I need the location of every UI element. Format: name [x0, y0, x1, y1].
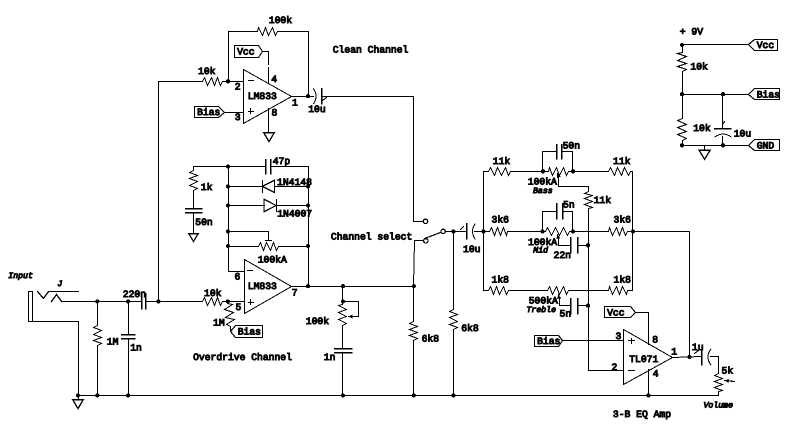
- diode D2 1N4007: [264, 199, 276, 211]
- wire supply top to Vcc flag: [683, 44, 749, 46]
- svg-text:5k: 5k: [722, 366, 734, 377]
- node clean branch junction: [156, 299, 160, 303]
- svg-text:100kA: 100kA: [528, 177, 557, 188]
- svg-text:5n: 5n: [563, 199, 575, 210]
- wire 1M to Bias flag: [230, 327, 232, 332]
- capacitor 10u bias decoupling (electrolytic): [722, 95, 724, 129]
- node pole junction: [451, 229, 455, 233]
- node treble 5n junction: [586, 304, 590, 308]
- capacitor 1n input to ground: [128, 302, 130, 335]
- potentiometer 100kA Mid: [546, 228, 570, 236]
- node supply ground right: [721, 143, 725, 147]
- node 1n ground: [126, 393, 130, 397]
- node 1M ground: [95, 393, 99, 397]
- node mid pot left: [540, 229, 544, 233]
- potentiometer 100kA overdrive gain: [229, 246, 259, 248]
- node 1N4007 left: [226, 203, 230, 207]
- node pin5 junction: [226, 299, 230, 303]
- svg-text:2: 2: [612, 362, 618, 373]
- node bass pot right: [571, 169, 575, 173]
- wire Vcc to pin8: [636, 313, 649, 345]
- svg-text:5: 5: [236, 302, 242, 313]
- node output feedback junction: [687, 355, 691, 359]
- op-amp U1B LM833 overdrive: [245, 260, 292, 314]
- wire feedback right down to output node: [278, 32, 309, 97]
- wire TL071 output: [673, 357, 702, 358]
- svg-text:10k: 10k: [690, 62, 708, 73]
- capacitor 47p: [265, 160, 267, 174]
- switch SW1 clean throw contact: [423, 219, 427, 223]
- svg-text:1: 1: [292, 97, 298, 108]
- node feedback top-left: [226, 165, 230, 169]
- wire bass wiper to 11k vert: [558, 174, 559, 178]
- svg-text:6: 6: [235, 271, 241, 282]
- svg-text:50n: 50n: [195, 217, 212, 228]
- svg-text:10k: 10k: [198, 66, 216, 77]
- node overdrive output: [306, 284, 310, 288]
- node 1n junction: [126, 299, 130, 303]
- wire feedback right bus: [308, 167, 310, 287]
- resistor 10k supply lower: [682, 95, 684, 119]
- wire 1N4007 row: [229, 205, 265, 207]
- node 6k8 ground A: [412, 393, 416, 397]
- node wiper row left: [226, 229, 230, 233]
- node supply ground left: [680, 143, 684, 147]
- potentiometer 100kA Bass: [549, 168, 569, 176]
- wire to bass pot: [511, 171, 549, 173]
- svg-text:Bass: Bass: [533, 187, 553, 196]
- capacitor 50n bass bypass: [543, 152, 557, 172]
- svg-text:8: 8: [652, 335, 658, 346]
- node EQ mid-row left: [481, 229, 485, 233]
- node switch drop: [412, 284, 416, 288]
- wire 1N4148 row: [229, 186, 263, 188]
- wire 10k to pin5: [223, 301, 245, 303]
- wire mid wiper to 22n: [558, 235, 559, 239]
- svg-text:10u: 10u: [308, 104, 325, 115]
- capacitor 22n mid wiper: [570, 238, 572, 253]
- wire input signal row: [62, 301, 142, 303]
- wire mid pot to 3k6 right: [570, 231, 609, 233]
- wire Bias to pin3: [225, 112, 243, 114]
- svg-text:LM833: LM833: [248, 281, 277, 292]
- svg-text:100k: 100k: [269, 15, 292, 26]
- wire 10k to pin2: [223, 81, 243, 83]
- svg-text:500kA: 500kA: [529, 295, 558, 306]
- capacitor 1n overdrive output: [342, 326, 344, 349]
- svg-text:8: 8: [272, 107, 278, 118]
- svg-text:1k: 1k: [201, 182, 213, 193]
- wire to treble pot: [509, 290, 548, 292]
- resistor 10k clean input: [203, 78, 223, 86]
- svg-text:3: 3: [616, 331, 622, 342]
- svg-text:1n: 1n: [324, 352, 336, 363]
- resistor 10k overdrive input: [203, 298, 223, 306]
- svg-text:22n: 22n: [554, 250, 571, 261]
- wire EQ right bus: [632, 172, 634, 291]
- wire bass pot to 11k right: [569, 171, 609, 173]
- svg-text:Vcc: Vcc: [757, 40, 775, 51]
- node 22n junction: [586, 243, 590, 247]
- wire feedback loop left+top: [229, 32, 258, 82]
- svg-text:11k: 11k: [594, 195, 612, 206]
- flag Bias clean: [195, 107, 225, 118]
- node 100k pot branch: [341, 284, 345, 288]
- capacitor 10u clean output (electrolytic): [314, 89, 317, 104]
- wire pot wiper tap: [229, 232, 269, 241]
- svg-text:Overdrive Channel: Overdrive Channel: [193, 352, 292, 363]
- node EQ mid-row right: [631, 229, 635, 233]
- flag Vcc clean: [235, 46, 263, 58]
- svg-text:1N4007: 1N4007: [277, 209, 312, 220]
- svg-text:1k8: 1k8: [614, 274, 632, 285]
- flag Vcc supply: [749, 40, 778, 51]
- pin4 stub to ground bus: [648, 370, 650, 396]
- node supply top: [680, 43, 684, 47]
- svg-text:1N4148: 1N4148: [277, 177, 312, 188]
- svg-text:TL071: TL071: [629, 354, 658, 365]
- svg-text:10k: 10k: [204, 288, 222, 299]
- resistor 1M overdrive bias (diagonal): [225, 304, 235, 327]
- resistor 1k8 treble left: [484, 290, 489, 292]
- node 1N4148 right: [306, 184, 310, 188]
- capacitor 1u output (electrolytic): [695, 351, 699, 354]
- wire ground bus: [79, 395, 719, 397]
- resistor 6k8 overdrive drop to ground: [413, 287, 415, 322]
- svg-text:Clean Channel: Clean Channel: [333, 45, 409, 56]
- svg-text:1: 1: [671, 347, 677, 358]
- wire overdrive output row: [291, 286, 414, 288]
- wire wiper bus down to TL071 pin2: [589, 209, 624, 371]
- svg-text:1M: 1M: [107, 336, 119, 347]
- wire pin6 from feedback bus: [229, 271, 245, 273]
- wire 1n to ground bus: [342, 353, 344, 396]
- svg-text:6k8: 6k8: [461, 323, 479, 334]
- wire cap to volume pot: [711, 357, 719, 374]
- svg-text:Treble: Treble: [527, 306, 557, 315]
- svg-text:3: 3: [235, 112, 241, 123]
- node 1N4148 left: [226, 184, 230, 188]
- node bass pot left: [541, 169, 545, 173]
- flag GND supply: [749, 140, 780, 151]
- wire clean-channel input vertical from signal node up to 10k: [159, 82, 203, 302]
- resistor 1k8 treble right: [609, 287, 628, 295]
- capacitor 5n mid bypass: [543, 212, 557, 232]
- capacitor 5n treble wiper: [570, 299, 572, 314]
- svg-text:2: 2: [235, 81, 241, 92]
- switch SW1 lever: [425, 233, 441, 239]
- ground clip branch: [193, 213, 195, 234]
- resistor 11k bass right: [609, 168, 631, 176]
- svg-text:Vcc: Vcc: [237, 47, 255, 58]
- svg-text:J: J: [57, 280, 62, 289]
- svg-text:Volume: Volume: [704, 402, 734, 411]
- wire clean output to channel select: [322, 97, 424, 222]
- svg-text:7: 7: [292, 287, 298, 298]
- svg-text:3-B EQ Amp: 3-B EQ Amp: [613, 409, 671, 420]
- svg-text:3k6: 3k6: [492, 215, 510, 226]
- node 1N4007 right: [306, 203, 310, 207]
- switch SW1 overdrive throw contact: [424, 239, 428, 243]
- svg-text:100kA: 100kA: [258, 255, 287, 266]
- node pin4 ground: [646, 393, 650, 397]
- resistor 1k clip branch: [193, 167, 195, 171]
- wire clean output to cap: [291, 96, 314, 98]
- wire pole to cap: [446, 231, 467, 233]
- wire 47p to right bus: [271, 166, 309, 168]
- wire treble wiper to 5n: [559, 295, 560, 299]
- svg-text:1u: 1u: [692, 342, 704, 353]
- wire cap to EQ input bus: [475, 231, 484, 233]
- svg-text:100k: 100k: [306, 316, 329, 327]
- node input ground: [76, 393, 80, 397]
- wire feedback left bus: [228, 167, 230, 272]
- flag Bias supply: [749, 89, 780, 100]
- node pot row left: [226, 244, 230, 248]
- resistor 3k6 mid left: [484, 231, 490, 233]
- wire 100k wiper loop: [343, 302, 359, 317]
- svg-text:Bias: Bias: [757, 89, 780, 100]
- svg-text:Bias: Bias: [197, 107, 220, 118]
- wire EQ left bus: [483, 172, 485, 291]
- connector J input jack: [29, 292, 33, 322]
- node pot row right: [306, 244, 310, 248]
- potentiometer 100k output level: [342, 287, 344, 305]
- svg-text:LM833: LM833: [248, 91, 277, 102]
- node bias divider: [680, 92, 684, 96]
- svg-text:5n: 5n: [560, 309, 572, 320]
- flag Vcc TL071: [605, 307, 636, 318]
- flag Bias TL071: [535, 336, 563, 347]
- potentiometer 5k Volume: [715, 374, 723, 392]
- wire overdrive throw to output row: [414, 241, 424, 287]
- resistor 6k8 pole to ground: [453, 232, 455, 310]
- capacitor 50n clip branch: [193, 191, 195, 209]
- resistor 100k clean feedback: [258, 28, 278, 36]
- node 6k8 ground B: [451, 393, 455, 397]
- wire treble pot to 1k8 right: [569, 290, 609, 292]
- resistor 3k6 mid right: [609, 228, 628, 236]
- wire Vcc to pin4: [263, 52, 269, 65]
- svg-text:10u: 10u: [463, 244, 480, 255]
- resistor 11k bass left: [484, 171, 489, 173]
- potentiometer 500kA Treble: [548, 287, 569, 295]
- capacitor 220n input coupling: [141, 294, 143, 309]
- svg-text:6k8: 6k8: [422, 334, 440, 345]
- capacitor 10u channel select (electrolytic): [466, 224, 468, 239]
- wire supply ground row to GND flag: [683, 145, 749, 147]
- svg-text:10u: 10u: [734, 128, 751, 139]
- resistor 10k supply upper: [682, 45, 684, 53]
- ground clean op-amp pin8: [264, 133, 275, 142]
- svg-text:Vcc: Vcc: [607, 308, 625, 319]
- svg-text:Channel select: Channel select: [331, 232, 412, 243]
- resistor 11k bass wiper: [585, 192, 593, 209]
- node pin2 junction: [226, 79, 230, 83]
- svg-text:11k: 11k: [493, 156, 511, 167]
- svg-text:3k6: 3k6: [614, 215, 632, 226]
- switch SW1 pole contact: [441, 229, 445, 233]
- wire jack tip contact: [52, 295, 62, 302]
- wire Bias to pin3: [563, 340, 624, 342]
- svg-text:50n: 50n: [563, 141, 580, 152]
- wire 22n to wiper bus: [578, 245, 589, 247]
- flag Bias overdrive: [231, 326, 263, 338]
- svg-text:+ 9V: + 9V: [680, 26, 703, 37]
- node mid pot right: [571, 229, 575, 233]
- svg-text:Mid: Mid: [533, 247, 548, 256]
- pin 8 stub: [268, 109, 270, 133]
- resistor 1M input to ground: [97, 302, 99, 326]
- op-amp U1A LM833 clean: [244, 70, 292, 124]
- node overdrive 1n ground: [341, 393, 345, 397]
- wire 220n to overdrive 10k: [146, 301, 203, 303]
- svg-text:1k8: 1k8: [492, 274, 510, 285]
- wire to mid pot: [508, 231, 546, 233]
- wire 5n to wiper bus: [578, 305, 589, 307]
- diode D1 1N4148: [262, 181, 264, 193]
- svg-text:4: 4: [653, 369, 659, 380]
- node clean output: [306, 94, 310, 98]
- svg-text:4: 4: [271, 74, 277, 85]
- wire bias node to Bias flag: [683, 94, 749, 96]
- ground input: [73, 400, 84, 409]
- svg-text:Bias: Bias: [537, 336, 560, 347]
- svg-text:1M: 1M: [213, 317, 225, 328]
- svg-text:GND: GND: [757, 141, 775, 152]
- node 10u branch top: [721, 92, 725, 96]
- svg-text:1n: 1n: [130, 343, 142, 354]
- svg-text:Bias: Bias: [238, 327, 261, 338]
- svg-text:10k: 10k: [693, 123, 711, 134]
- ground supply: [704, 146, 706, 151]
- node 1M junction: [95, 299, 99, 303]
- wire EQ feedback from output: [633, 232, 690, 357]
- svg-text:11k: 11k: [613, 156, 631, 167]
- wire jack sleeve to ground bus: [33, 322, 79, 396]
- svg-text:220n: 220n: [123, 289, 146, 300]
- svg-text:Input: Input: [8, 272, 33, 281]
- wire feedback top row: [194, 166, 266, 168]
- op-amp U2 TL071: [624, 330, 673, 385]
- svg-text:47p: 47p: [273, 156, 291, 167]
